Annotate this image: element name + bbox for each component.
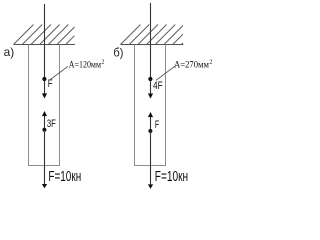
axis line bottom (а) (44, 130, 46, 185)
svg-text:б): б) (113, 46, 123, 60)
node 2 (б) (148, 129, 152, 133)
svg-text:а): а) (4, 45, 15, 59)
support hatching (а) (14, 25, 95, 45)
leader line to A=120 (а) (49, 66, 68, 80)
svg-text:3F: 3F (47, 118, 56, 130)
ceiling line (а) (13, 44, 75, 46)
axis line top (а) (44, 4, 46, 94)
svg-text:2: 2 (101, 59, 104, 66)
bar outline (а) (29, 45, 60, 166)
svg-text:А=270мм: А=270мм (174, 60, 209, 71)
node 2 (а) (42, 128, 46, 132)
svg-text:А=120мм: А=120мм (69, 60, 101, 71)
ceiling line (б) (120, 44, 183, 46)
axis line bottom (б) (150, 131, 152, 185)
svg-text:F=10кн: F=10кн (48, 169, 81, 185)
force F=10кн arrowhead (а) (42, 184, 47, 188)
leader line to A=270 (б) (156, 66, 175, 80)
force F=10кн arrowhead (б) (148, 184, 153, 188)
force F arrowhead down (а) (42, 93, 47, 98)
svg-text:F=10кн: F=10кн (155, 169, 188, 185)
force 3F arrow up (а) (44, 115, 46, 130)
force 4F arrowhead down (б) (148, 94, 153, 99)
force F arrow up (б) (150, 116, 152, 131)
bar outline (б) (135, 45, 166, 166)
node 1 (б) (148, 77, 152, 81)
axis line top (б) (150, 3, 152, 94)
svg-text:4F: 4F (153, 80, 163, 92)
svg-text:F: F (155, 119, 159, 131)
node 1 (а) (42, 77, 46, 81)
support hatching (б) (121, 25, 202, 45)
svg-text:2: 2 (209, 59, 212, 66)
